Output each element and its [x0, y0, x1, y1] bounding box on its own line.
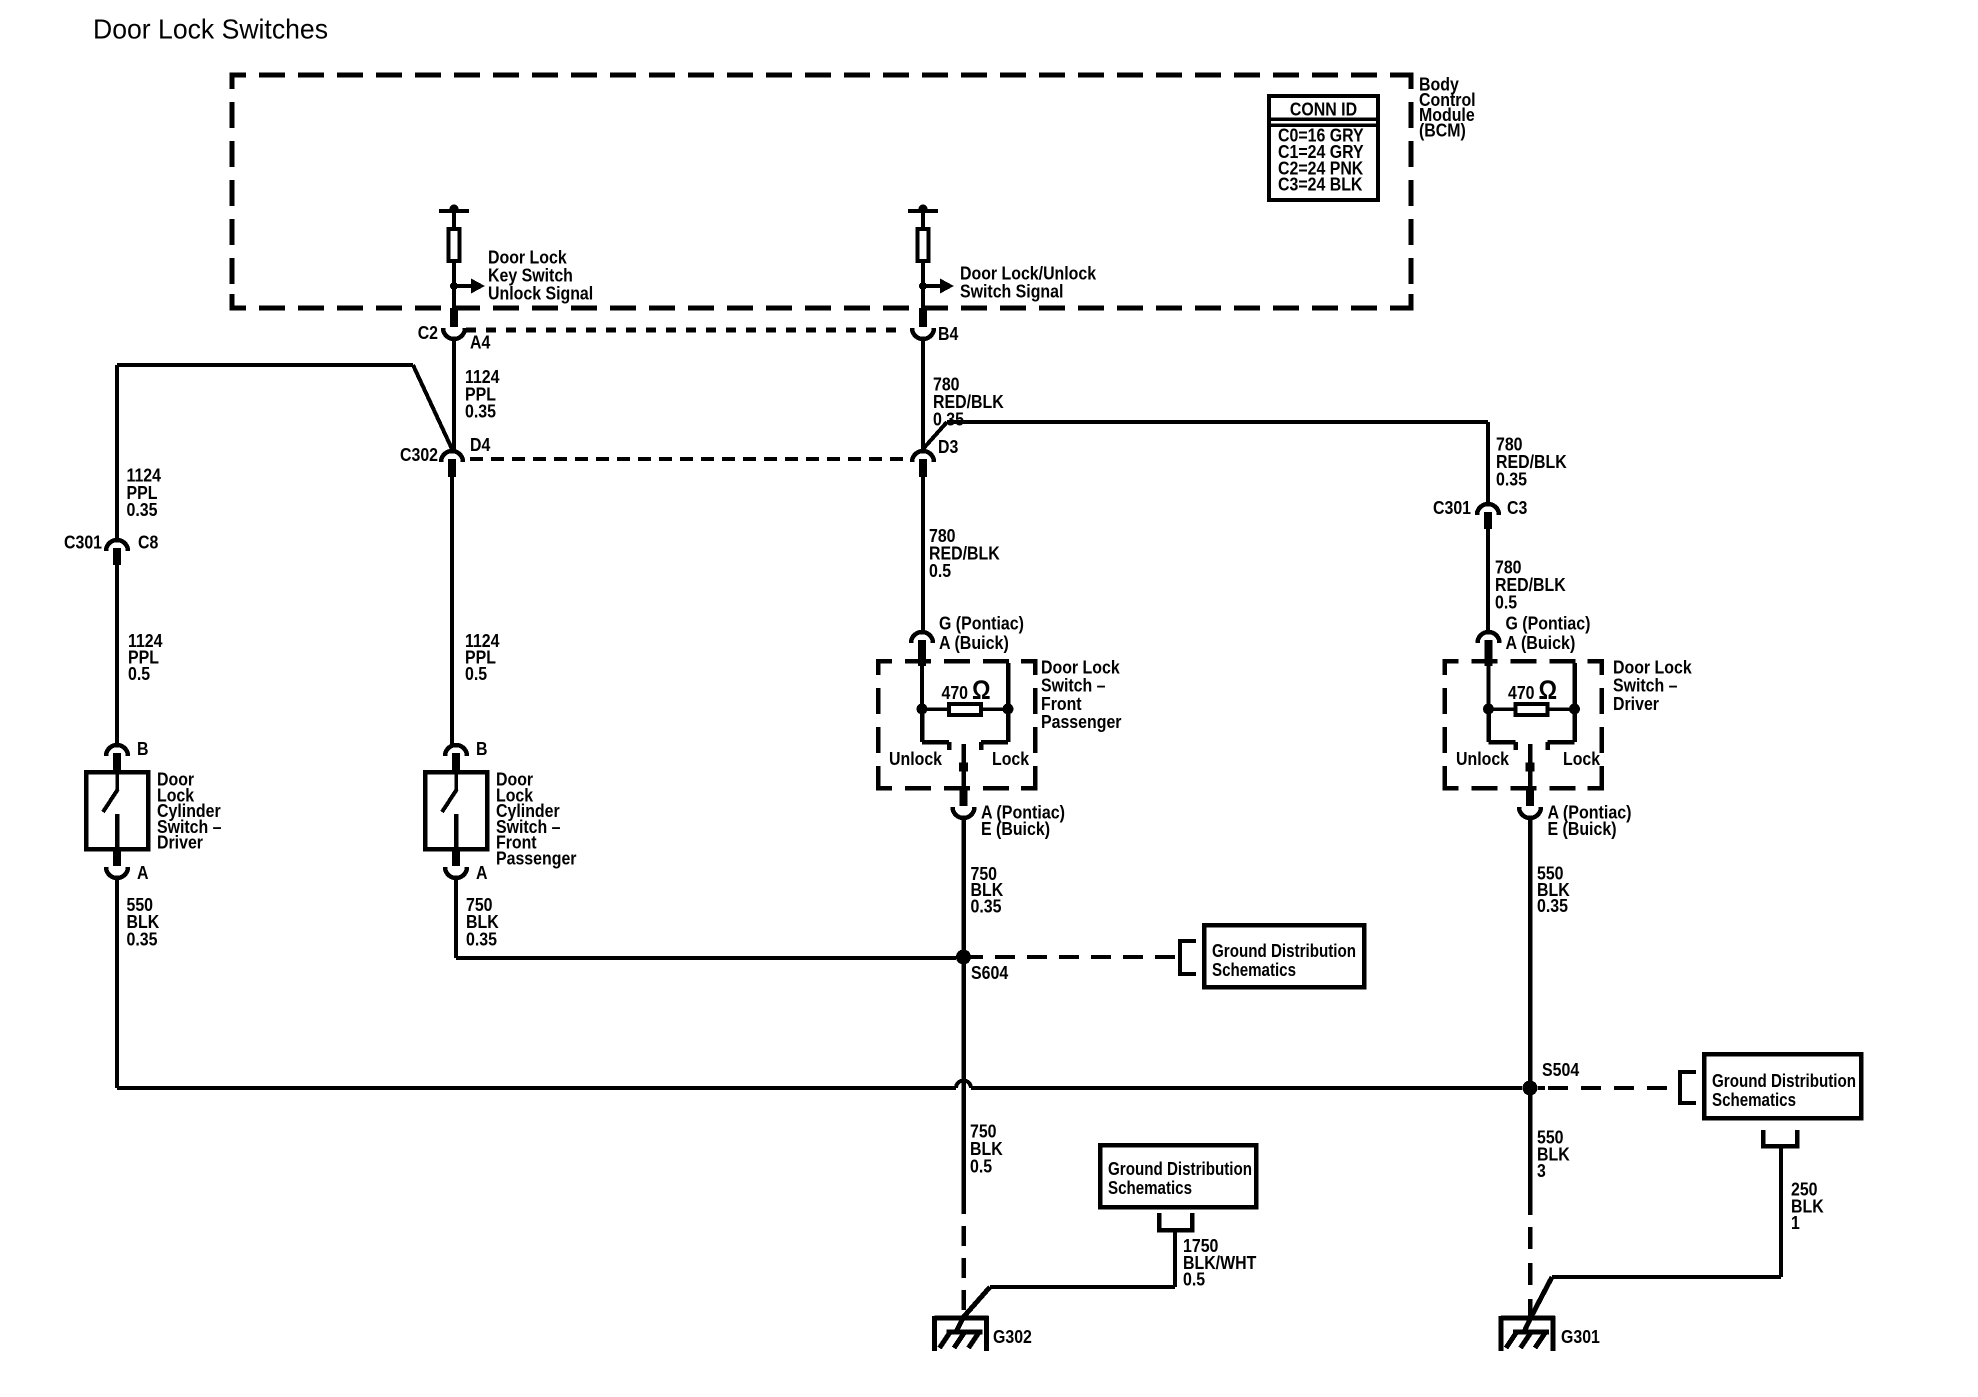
svg-text:C3: C3	[1507, 497, 1527, 518]
svg-text:0.35: 0.35	[1537, 895, 1568, 916]
svg-text:Unlock: Unlock	[1456, 748, 1510, 769]
svg-text:0.35: 0.35	[933, 409, 964, 430]
svg-text:A4: A4	[470, 332, 491, 353]
svg-text:D4: D4	[470, 434, 491, 455]
svg-text:0.35: 0.35	[127, 928, 158, 949]
svg-text:Lock: Lock	[992, 748, 1030, 769]
svg-text:S604: S604	[971, 962, 1009, 983]
svg-text:Schematics: Schematics	[1212, 959, 1296, 980]
svg-text:E (Buick): E (Buick)	[1548, 818, 1617, 839]
svg-text:S504: S504	[1542, 1059, 1580, 1080]
svg-text:Schematics: Schematics	[1712, 1089, 1796, 1110]
svg-text:0.35: 0.35	[127, 499, 158, 520]
svg-text:G302: G302	[993, 1326, 1032, 1347]
svg-text:0.5: 0.5	[1495, 592, 1517, 613]
svg-text:3: 3	[1537, 1160, 1546, 1181]
svg-text:A: A	[137, 862, 149, 883]
svg-text:Ω: Ω	[972, 675, 991, 705]
svg-text:C301: C301	[64, 532, 102, 553]
svg-text:G (Pontiac): G (Pontiac)	[1506, 613, 1591, 634]
svg-text:Ground Distribution: Ground Distribution	[1212, 940, 1356, 961]
svg-text:C3=24 BLK: C3=24 BLK	[1278, 174, 1363, 195]
svg-text:G301: G301	[1561, 1326, 1600, 1347]
svg-text:1: 1	[1791, 1212, 1800, 1233]
svg-text:Ground Distribution: Ground Distribution	[1712, 1070, 1856, 1091]
svg-text:A: A	[476, 862, 488, 883]
svg-text:D3: D3	[938, 436, 958, 457]
svg-text:A (Buick): A (Buick)	[1506, 632, 1576, 653]
svg-text:C8: C8	[138, 532, 158, 553]
svg-text:Passenger: Passenger	[1041, 711, 1122, 732]
svg-text:Unlock Signal: Unlock Signal	[488, 283, 593, 304]
svg-text:0.5: 0.5	[128, 663, 150, 684]
svg-text:Driver: Driver	[1613, 693, 1659, 714]
svg-text:Passenger: Passenger	[496, 848, 577, 869]
svg-text:470: 470	[942, 682, 969, 703]
svg-text:Ground Distribution: Ground Distribution	[1108, 1158, 1252, 1179]
svg-text:C2: C2	[418, 322, 438, 343]
svg-text:0.5: 0.5	[465, 663, 487, 684]
svg-text:0.35: 0.35	[466, 928, 497, 949]
svg-text:0.35: 0.35	[465, 401, 496, 422]
svg-text:0.35: 0.35	[1496, 469, 1527, 490]
svg-text:470: 470	[1508, 682, 1535, 703]
svg-text:G (Pontiac): G (Pontiac)	[939, 613, 1024, 634]
svg-text:B4: B4	[938, 323, 959, 344]
svg-text:0.5: 0.5	[1183, 1269, 1205, 1290]
svg-text:Schematics: Schematics	[1108, 1177, 1192, 1198]
svg-text:B: B	[137, 738, 149, 759]
svg-text:C301: C301	[1433, 497, 1471, 518]
svg-text:0.35: 0.35	[971, 896, 1002, 917]
svg-text:C302: C302	[400, 444, 438, 465]
svg-text:0.5: 0.5	[970, 1156, 992, 1177]
svg-text:CONN ID: CONN ID	[1290, 99, 1357, 120]
svg-text:Unlock: Unlock	[889, 748, 943, 769]
svg-text:(BCM): (BCM)	[1419, 119, 1466, 140]
svg-text:Switch Signal: Switch Signal	[960, 281, 1063, 302]
svg-text:Door Lock Switches: Door Lock Switches	[93, 14, 328, 45]
svg-text:Lock: Lock	[1563, 748, 1601, 769]
svg-text:E (Buick): E (Buick)	[981, 818, 1050, 839]
svg-text:A (Buick): A (Buick)	[939, 632, 1009, 653]
svg-text:0.5: 0.5	[929, 560, 951, 581]
svg-text:Ω: Ω	[1539, 675, 1558, 705]
svg-text:B: B	[476, 738, 488, 759]
svg-text:Driver: Driver	[157, 832, 203, 853]
